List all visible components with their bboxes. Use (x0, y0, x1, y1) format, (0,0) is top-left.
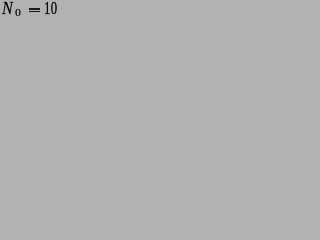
equals top bar (29, 8, 40, 9)
subscript 0 (15, 8, 21, 19)
equals bottom bar (29, 11, 40, 12)
10 (44, 0, 58, 17)
N italic (2, 0, 13, 17)
